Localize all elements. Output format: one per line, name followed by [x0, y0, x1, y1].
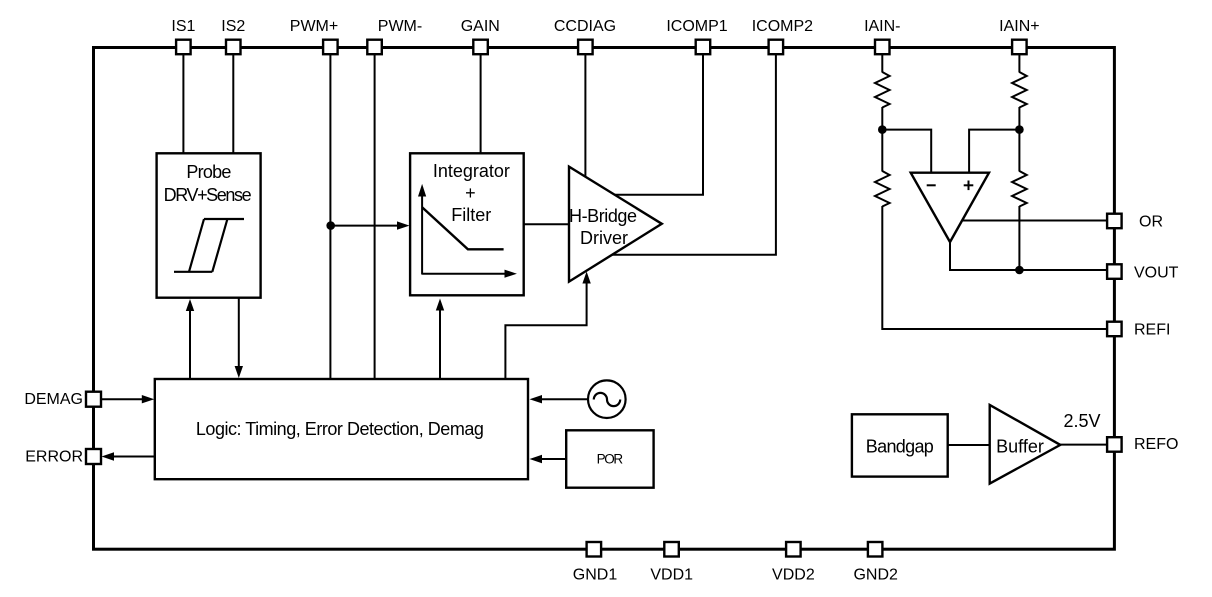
svg-text:2.5V: 2.5V — [1063, 411, 1100, 431]
arrow Logic to Integrator (up) — [436, 299, 444, 380]
svg-text:DRV+Sense: DRV+Sense — [164, 185, 252, 205]
svg-text:POR: POR — [597, 452, 624, 467]
arrow POR to Logic — [530, 455, 567, 463]
pin PWM+ — [290, 18, 338, 54]
pin CCDIAG — [554, 18, 616, 54]
svg-text:OR: OR — [1139, 214, 1163, 231]
pin VDD2 — [772, 542, 815, 584]
arrow Probe to Logic (down) — [235, 298, 243, 378]
pin ICOMP2 — [752, 18, 813, 54]
svg-text:GAIN: GAIN — [461, 18, 500, 35]
wire ICOMP2 to H-Bridge — [612, 54, 776, 255]
block POR — [566, 430, 653, 487]
pin VOUT — [1107, 264, 1179, 281]
svg-text:Integrator: Integrator — [433, 161, 510, 181]
pin DEMAG — [24, 391, 101, 408]
svg-text:IS1: IS1 — [171, 18, 195, 35]
svg-text:ICOMP1: ICOMP1 — [666, 18, 727, 35]
wire Buffer to REFO — [1060, 444, 1107, 446]
graph x-axis inside Integrator — [422, 270, 517, 278]
svg-text:PWM+: PWM+ — [290, 18, 338, 35]
resistor R3 (IAIN+ upper) — [1012, 72, 1027, 108]
wire R1 to R2 through junction — [881, 107, 883, 172]
resistor R2 (IAIN- lower) — [875, 171, 890, 207]
op-amp U1 — [911, 173, 989, 242]
svg-text:IS2: IS2 — [221, 18, 245, 35]
resistor R4 (IAIN+ lower) — [1012, 171, 1027, 207]
svg-text:DEMAG: DEMAG — [24, 391, 83, 408]
arrow Logic to ERROR — [102, 452, 155, 460]
svg-text:VOUT: VOUT — [1134, 265, 1179, 282]
node IAIN- junction — [878, 125, 887, 134]
pin OR — [1107, 214, 1163, 231]
svg-text:PWM-: PWM- — [378, 18, 422, 35]
graph decay curve inside Integrator — [422, 207, 504, 249]
svg-text:H-Bridge: H-Bridge — [569, 206, 637, 226]
svg-text:GND2: GND2 — [853, 567, 898, 584]
pin ERROR — [25, 449, 101, 466]
arrow oscillator to Logic — [530, 395, 589, 403]
pin VDD1 — [650, 542, 693, 584]
wire op-amp output to VOUT — [950, 242, 1107, 270]
pin IAIN+ — [999, 18, 1039, 54]
arrow PWM+ to Integrator input — [331, 221, 410, 229]
node PWM+ junction — [326, 221, 335, 230]
block Logic — [155, 379, 528, 479]
wire R3 to R4 through junction — [1018, 107, 1020, 172]
wire op-amp to OR — [962, 220, 1107, 222]
svg-text:GND1: GND1 — [573, 567, 618, 584]
wire CCDIAG to H-Bridge — [584, 54, 586, 178]
svg-text:VDD1: VDD1 — [650, 567, 693, 584]
svg-text:+: + — [465, 183, 476, 203]
svg-text:IAIN+: IAIN+ — [999, 18, 1039, 35]
block Probe DRV+Sense — [157, 153, 261, 297]
pin IAIN- — [864, 18, 900, 54]
buffer amplifier triangle — [990, 405, 1061, 484]
wire junction to op-amp non-inverting input — [969, 130, 1019, 173]
svg-text:REFO: REFO — [1134, 436, 1178, 453]
svg-text:Probe: Probe — [186, 162, 231, 182]
wire Integrator to H-Bridge — [524, 223, 569, 225]
resistor R1 (IAIN- upper) — [875, 72, 890, 108]
wire junction to op-amp inverting input — [882, 130, 931, 173]
svg-text:Logic: Timing, Error Detection: Logic: Timing, Error Detection, Demag — [196, 419, 484, 439]
pin GAIN — [461, 18, 500, 54]
svg-text:REFI: REFI — [1134, 322, 1170, 339]
arrow Logic to H-Bridge enable — [505, 272, 590, 380]
wire GAIN to Integrator — [480, 54, 482, 153]
H-Bridge Driver triangle — [569, 167, 662, 282]
graph y-axis inside Integrator — [418, 184, 426, 275]
wire R2 down and right to REFI — [882, 206, 1107, 329]
svg-text:Driver: Driver — [580, 228, 628, 248]
wire IAIN+ pin to resistor R3 — [1018, 54, 1020, 73]
wire Bandgap to Buffer — [948, 444, 990, 446]
wire IAIN- pin to resistor R1 — [881, 54, 883, 73]
wire PWM+ to Logic — [329, 54, 331, 379]
pin IS2 — [221, 18, 245, 54]
oscillator symbol — [588, 380, 626, 418]
wire IS2 to Probe — [232, 54, 234, 153]
wire IS1 to Probe — [182, 54, 184, 153]
block Integrator + Filter — [410, 153, 524, 295]
pin PWM- — [367, 18, 422, 54]
block Bandgap — [852, 414, 948, 476]
svg-text:VDD2: VDD2 — [772, 567, 815, 584]
pin GND2 — [853, 542, 898, 584]
hysteresis symbol inside Probe — [174, 219, 244, 272]
pin REFO — [1107, 436, 1178, 453]
wire R4 down to VOUT junction — [1018, 206, 1020, 270]
arrow DEMAG to Logic — [101, 395, 154, 403]
svg-text:ERROR: ERROR — [25, 449, 83, 466]
pin REFI — [1107, 322, 1170, 339]
pin GND1 — [573, 542, 618, 584]
svg-text:ICOMP2: ICOMP2 — [752, 18, 813, 35]
svg-text:IAIN-: IAIN- — [864, 18, 900, 35]
svg-text:CCDIAG: CCDIAG — [554, 18, 616, 35]
arrow Probe to Logic (up) — [186, 299, 194, 379]
IC outer boundary — [94, 48, 1115, 550]
wire PWM- to Logic — [374, 54, 376, 379]
pin IS1 — [171, 18, 195, 54]
svg-text:Filter: Filter — [451, 205, 491, 225]
wire ICOMP1 to H-Bridge — [615, 54, 703, 195]
node VOUT junction — [1015, 266, 1024, 275]
pin ICOMP1 — [666, 18, 727, 54]
node IAIN+ junction — [1015, 125, 1024, 134]
svg-text:Bandgap: Bandgap — [866, 436, 934, 456]
svg-text:Buffer: Buffer — [996, 436, 1044, 456]
